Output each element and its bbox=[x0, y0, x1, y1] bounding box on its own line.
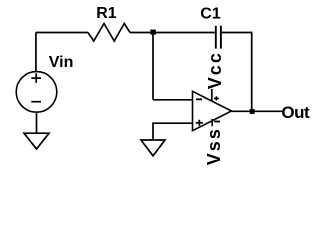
marker: source minus sign bbox=[31, 101, 41, 103]
wire: source top lead bbox=[35, 33, 37, 72]
svg-text:Vcc: Vcc bbox=[205, 51, 225, 89]
svg-text:Out: Out bbox=[281, 103, 310, 122]
node: output junction bbox=[250, 109, 255, 114]
wire: non-inverting input lead to ground bbox=[153, 123, 193, 140]
svg-text:R1: R1 bbox=[96, 5, 117, 22]
wire: source bottom lead bbox=[36, 112, 38, 133]
svg-text:Vin: Vin bbox=[49, 54, 74, 71]
wire: inverting input lead bbox=[153, 99, 193, 101]
voltage source V1 bbox=[16, 72, 57, 113]
wire: junction down to inverting input bbox=[152, 33, 154, 100]
resistor R1 bbox=[88, 24, 130, 42]
ground: op-amp non-inverting input bbox=[141, 140, 165, 156]
wire: C1 to output node (feedback) bbox=[222, 33, 252, 112]
wire: output lead bbox=[232, 110, 284, 112]
marker: Vss pin minus bbox=[214, 121, 220, 123]
op-amp U1 body bbox=[193, 91, 232, 130]
svg-text:C1: C1 bbox=[200, 6, 221, 23]
ground: below source bbox=[24, 133, 49, 149]
marker: op-amp inverting input minus bbox=[196, 98, 202, 100]
marker: Vcc pin plus bbox=[214, 96, 219, 100]
marker: op-amp non-inverting input plus bbox=[196, 120, 203, 126]
marker: source plus sign bbox=[31, 73, 41, 83]
node: junction R1/C1/inverting input bbox=[150, 30, 155, 35]
wire: R1 to C1 left plate bbox=[130, 32, 215, 34]
op-amp Vcc pin stub bbox=[211, 89, 213, 102]
svg-text:Vss: Vss bbox=[204, 127, 224, 165]
capacitor C1 bbox=[216, 26, 221, 49]
wire: top net, source to R1 bbox=[36, 32, 88, 34]
op-amp Vss pin stub bbox=[211, 119, 213, 126]
